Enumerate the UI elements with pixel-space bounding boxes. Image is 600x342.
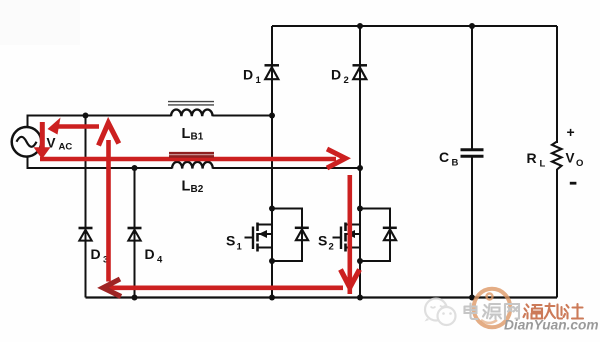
svg-text:L: L <box>540 159 546 170</box>
node upper line at D1 column <box>269 113 275 119</box>
node S2 source <box>357 258 363 264</box>
MOSFET S2 <box>333 223 361 252</box>
label VO with polarity <box>566 124 584 185</box>
node S1 drain <box>269 206 275 212</box>
watermark mascot <box>425 299 456 326</box>
svg-text:1: 1 <box>237 242 243 253</box>
svg-text:D: D <box>331 67 341 83</box>
svg-text:S: S <box>318 233 327 249</box>
wire D1/S1 column <box>271 26 273 298</box>
svg-text:+: + <box>567 124 575 140</box>
resistor RL column wires <box>556 26 558 298</box>
label V AC <box>47 136 73 153</box>
diode D2 <box>353 65 368 79</box>
label D3 <box>91 246 109 266</box>
node bottom bus at D4 <box>132 295 138 301</box>
svg-text:B: B <box>452 158 459 169</box>
wire D4 column <box>134 167 136 298</box>
node S2 drain <box>357 206 363 212</box>
inductor LB2 <box>172 162 213 169</box>
red current arrow: top left toward source <box>48 118 100 135</box>
red current arrow: up through diode leg <box>99 123 119 282</box>
svg-text:L: L <box>182 126 191 142</box>
svg-text:2: 2 <box>329 242 334 253</box>
watermark text dianyuan club (hand-drawn glyphs) <box>465 304 584 320</box>
svg-text:B2: B2 <box>191 184 204 195</box>
svg-text:2: 2 <box>344 75 349 86</box>
label D4 <box>145 246 164 266</box>
wire lower line (VAC bottom to S2 column) <box>27 167 362 169</box>
svg-text:O: O <box>576 158 583 169</box>
node bottom bus at S2 <box>357 295 363 301</box>
node top wire at D2 <box>357 23 363 29</box>
label LB1 <box>182 126 204 143</box>
wire upper line (VAC top to D1 column) <box>27 115 274 117</box>
label D1 <box>243 67 262 87</box>
node top wire at CB <box>469 23 475 29</box>
wire left rail bottom <box>27 156 29 170</box>
node lower line at D4 <box>132 165 138 171</box>
inductor LB1 <box>168 102 214 117</box>
AC source VAC <box>12 127 42 157</box>
wire D3 column <box>85 115 87 298</box>
node bottom bus at CB <box>469 295 475 301</box>
svg-text:V: V <box>566 151 575 166</box>
label S1 <box>226 233 243 253</box>
svg-text:D: D <box>91 246 101 262</box>
svg-text:R: R <box>527 150 537 166</box>
MOSFET S1 <box>245 223 273 252</box>
body diode of S2 <box>360 209 397 262</box>
node bottom bus at S1 <box>269 295 275 301</box>
node S1 source <box>269 258 275 264</box>
diode D4 <box>128 228 142 241</box>
wire left rail top <box>27 115 29 129</box>
label D2 <box>331 67 349 87</box>
svg-text:L: L <box>182 179 191 195</box>
wire bottom bus <box>86 296 558 298</box>
red current arrow: long line through LB2 to S2 <box>40 149 346 168</box>
label S2 <box>318 233 334 253</box>
red current arrow: down through S2 <box>341 175 360 294</box>
diode D3 <box>79 228 93 241</box>
diode D1 <box>265 65 280 79</box>
body diode of S1 <box>272 209 309 262</box>
resistor RL zigzag <box>552 142 562 170</box>
wire top bus <box>272 25 557 27</box>
red current arrow: bottom return line <box>103 279 343 297</box>
red current arrow: VAC loop down <box>34 122 51 159</box>
capacitor CB <box>461 150 484 157</box>
node upper line at D3 <box>83 113 89 119</box>
svg-text:B1: B1 <box>191 132 204 143</box>
svg-text:4: 4 <box>157 255 163 266</box>
svg-text:D: D <box>243 67 253 83</box>
node lower line at S2 column <box>357 165 363 171</box>
watermark orange ring <box>474 289 511 328</box>
svg-text:C: C <box>439 149 449 165</box>
svg-text:AC: AC <box>59 142 73 153</box>
wire D2/S2 column <box>359 26 361 298</box>
label RL <box>527 150 546 170</box>
svg-text:D: D <box>145 246 155 262</box>
label CB <box>439 149 459 169</box>
svg-text:S: S <box>226 233 235 249</box>
LB2 core lines overlapped dark red <box>169 153 214 156</box>
svg-text:1: 1 <box>256 75 262 86</box>
label LB2 <box>182 179 204 196</box>
capacitor CB column wires <box>471 26 473 298</box>
svg-text:DianYuan.com: DianYuan.com <box>504 318 599 333</box>
